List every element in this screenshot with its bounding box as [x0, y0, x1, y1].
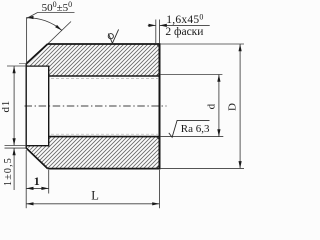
d1 extension top	[19, 63, 26, 65]
cone surface extension line	[48, 22, 71, 45]
chamfer callout ext line left	[155, 20, 157, 44]
chamfer callout ext line right	[159, 20, 161, 44]
l extension right	[48, 170, 50, 194]
svg-text:d1: d1	[0, 100, 12, 113]
outline internal step	[48, 66, 50, 147]
ghost line bore top artifact	[51, 78, 158, 80]
d dimension line	[218, 75, 220, 137]
D extension top	[161, 43, 244, 45]
svg-text:2 фаски: 2 фаски	[165, 26, 203, 38]
chamfer edge bore top right	[156, 73, 159, 76]
outline flare cone bottom	[26, 148, 48, 169]
1pm05 lower arrow	[13, 148, 15, 190]
chamfer callout shelf with right arrow	[160, 24, 210, 26]
hatch bottom wall section	[27, 137, 160, 169]
svg-text:D: D	[226, 103, 238, 111]
chamfer edge outer top right	[156, 44, 159, 47]
hatch top wall section	[27, 44, 160, 76]
svg-text:L: L	[91, 188, 99, 202]
d1 dimension line	[13, 66, 15, 146]
chamfer edge outer bottom right	[156, 165, 159, 168]
D extension bottom	[161, 167, 244, 169]
outline bore bottom	[49, 136, 160, 138]
outline bore top	[49, 75, 160, 77]
d1 extension bottom	[5, 147, 27, 149]
d extension bottom	[161, 136, 224, 138]
centerline axis	[25, 105, 167, 107]
outline left face	[25, 63, 27, 148]
outline right end face	[159, 43, 161, 169]
chamfer callout left arrow	[148, 24, 156, 26]
svg-text:1±0,5: 1±0,5	[3, 157, 14, 186]
arrowhead arc lower	[55, 25, 62, 31]
angle extension line vertical	[26, 17, 28, 62]
chamfer edge bore bottom right	[156, 137, 159, 140]
roughness symbol on body top	[108, 29, 118, 43]
l dimension line	[26, 187, 49, 189]
d1 extension counterbore top level	[7, 65, 26, 67]
outline flare cone top	[26, 44, 47, 64]
svg-text:Ra 6,3: Ra 6,3	[181, 123, 210, 135]
ghost line bore bottom artifact	[51, 133, 158, 135]
outline body top	[48, 43, 160, 45]
L dimension line	[26, 203, 159, 205]
svg-text:1,6x450: 1,6x450	[166, 12, 203, 26]
D dimension line	[239, 44, 241, 168]
outline body bottom	[48, 168, 160, 170]
outline counterbore bottom	[26, 145, 49, 147]
svg-text:d: d	[206, 103, 218, 109]
arrowhead arc top	[26, 16, 33, 19]
l extension left	[25, 150, 27, 208]
outline counterbore top	[26, 65, 49, 67]
angle dimension arc	[26, 18, 62, 31]
leader 50deg	[27, 13, 75, 19]
roughness Ra63 in bore	[169, 120, 210, 137]
1pm05 extension line	[5, 145, 27, 147]
svg-text:1: 1	[34, 174, 40, 188]
d extension top	[161, 74, 223, 76]
L extension right	[159, 170, 161, 208]
svg-text:500±50: 500±50	[42, 0, 73, 14]
